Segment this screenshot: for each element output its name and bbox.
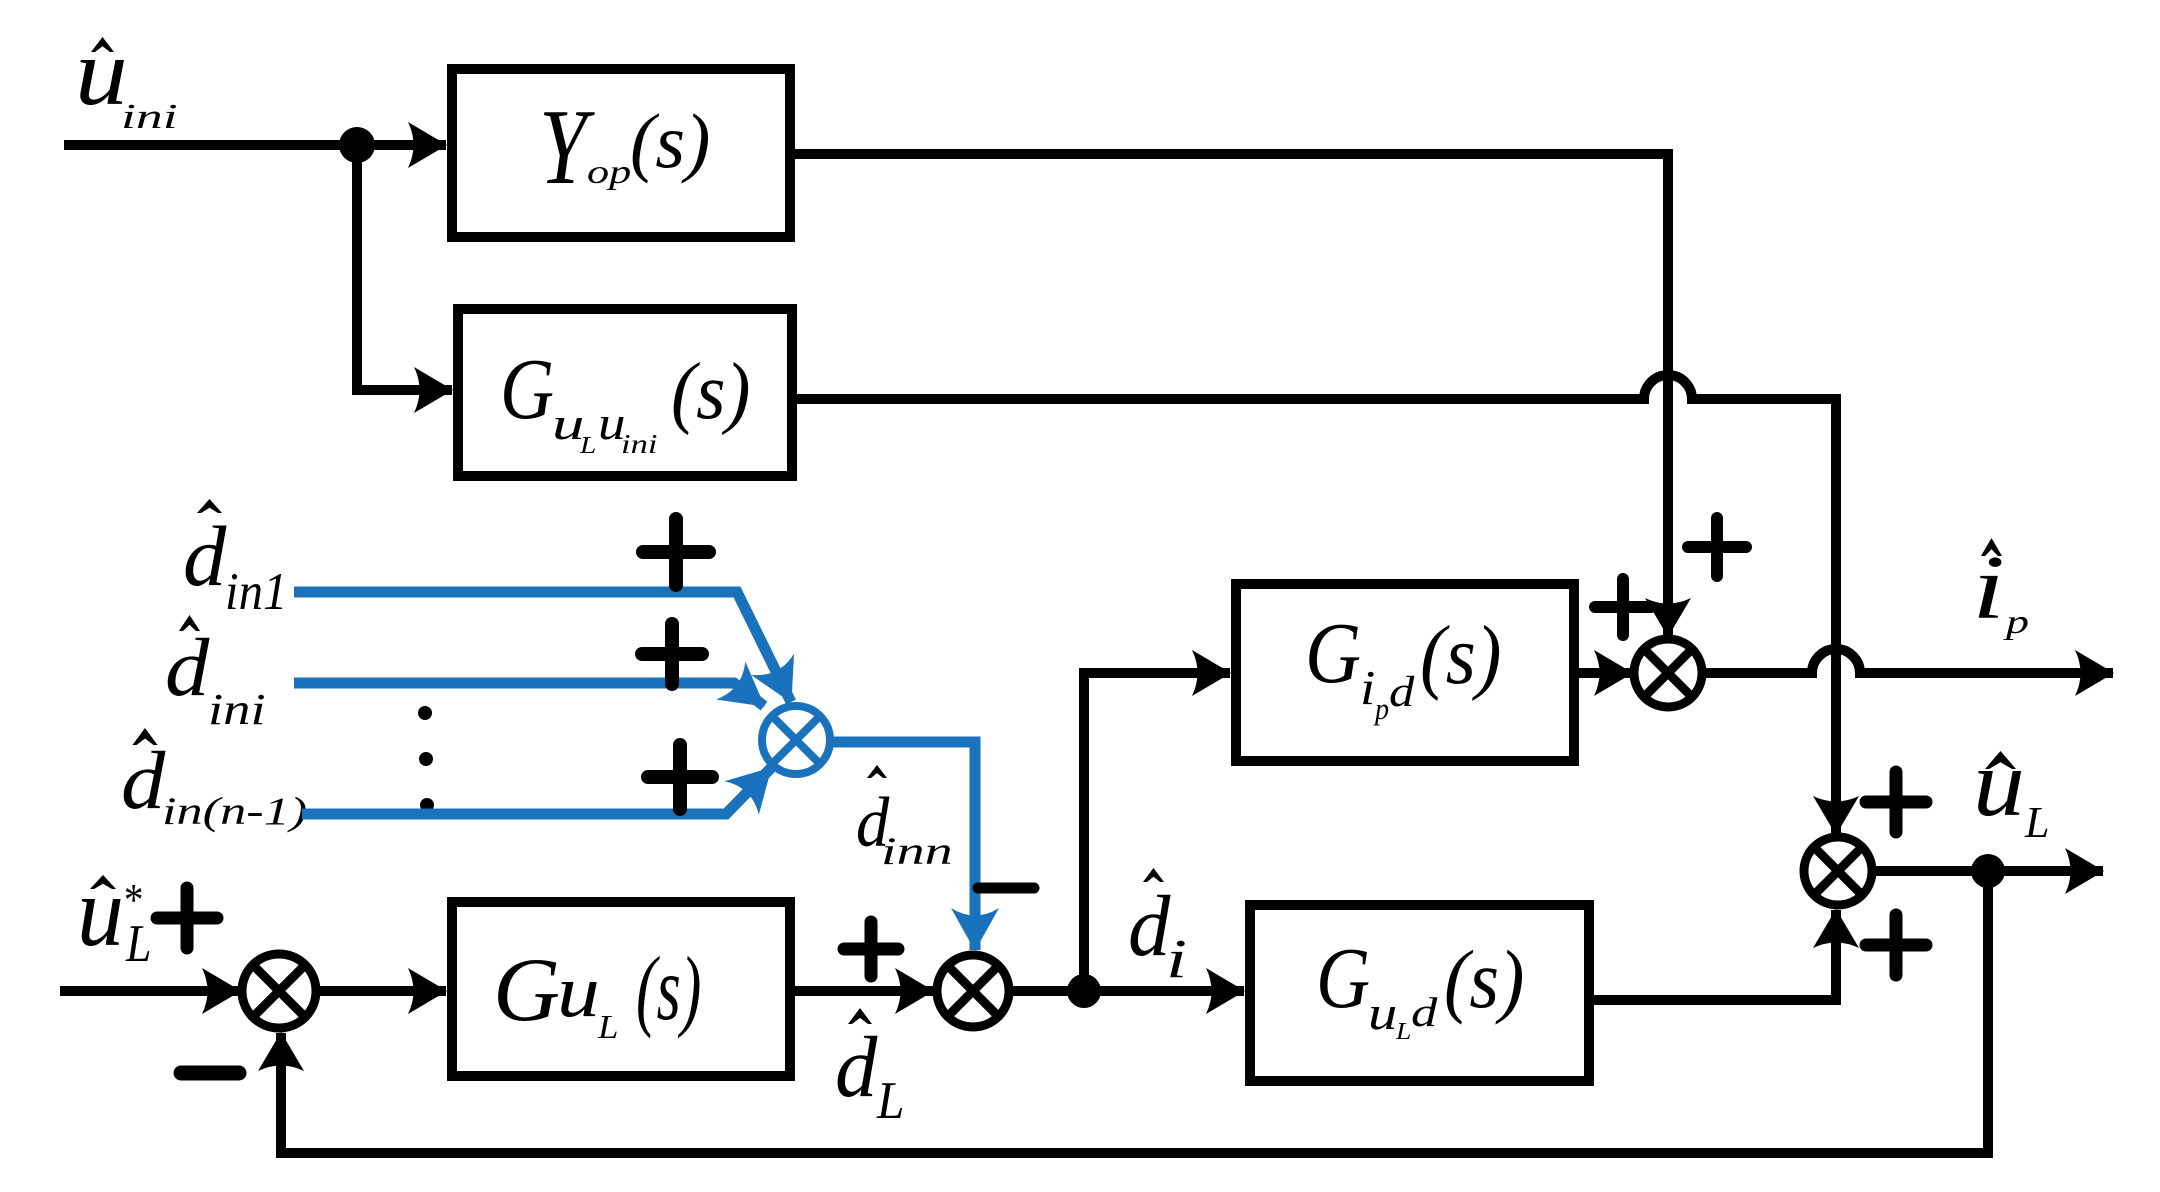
label d_L <box>835 1008 904 1130</box>
svg-text:(s): (s) <box>1444 933 1524 1025</box>
wire S2 output (d_i) to G_uLd <box>1009 986 1244 996</box>
wire feedback from node C to S5 <box>281 871 1988 1153</box>
svg-text:G: G <box>493 939 560 1040</box>
svg-text:u: u <box>1973 730 2025 836</box>
label d_ini <box>165 615 266 734</box>
block G_uLd(s) <box>1250 905 1589 1081</box>
label u_L (output signal) <box>1973 730 2050 847</box>
wire d_ini (blue) into S1 <box>294 683 764 706</box>
svg-text:(s): (s) <box>671 347 750 436</box>
label u*_L (reference input) <box>77 856 151 973</box>
svg-text:i: i <box>1166 928 1187 989</box>
wire G_ipd output into junction S3 <box>1579 668 1632 678</box>
summing junction S2 (middle) <box>937 955 1009 1027</box>
wire S5 to Gu_L <box>320 986 446 996</box>
node B (d_i branch point) <box>1067 974 1101 1008</box>
svg-text:L: L <box>579 432 597 459</box>
svg-text:G: G <box>500 341 554 437</box>
wire Gu_L output (d_L) into junction S2 <box>795 986 933 996</box>
minus sign for feedback into S5 <box>181 1066 239 1081</box>
minus sign for d_inn into S2 <box>978 883 1034 894</box>
svg-text:u: u <box>1368 987 1397 1040</box>
plus sign for bottom input into S4 <box>1866 915 1926 975</box>
svg-text:i: i <box>1360 662 1375 715</box>
svg-text:G: G <box>1316 930 1370 1026</box>
wire G_uLuini output with line hop, down to junction S4 <box>797 375 1836 834</box>
svg-text:p: p <box>1373 692 1389 726</box>
wire G_uLd output up into junction S4 <box>1594 910 1836 1000</box>
plus sign for d_in(n-1) <box>648 745 712 809</box>
summing junction S4 (lower right) <box>1804 837 1872 905</box>
svg-text:d: d <box>183 509 228 604</box>
svg-text:d: d <box>121 734 166 826</box>
label d_inn <box>856 765 953 873</box>
svg-text:L: L <box>876 1071 904 1130</box>
svg-text:(s): (s) <box>630 98 710 184</box>
wire d_in1 (blue) into S1 <box>294 592 791 702</box>
block Y_op(s) <box>452 69 790 237</box>
svg-text:ini: ini <box>121 97 178 136</box>
plus sign for d_in1 <box>643 519 709 585</box>
plus sign for u*_L into S5 <box>157 888 217 948</box>
label d_in(n-1) <box>121 728 307 833</box>
svg-text:d: d <box>1389 669 1415 716</box>
svg-text:L: L <box>2024 798 2050 847</box>
wire d_inn (blue) from S1 into junction S2 <box>830 742 975 950</box>
wire d_in(n-1) (blue) into S1 <box>302 768 771 814</box>
svg-text:G: G <box>1305 605 1361 701</box>
wire d_i branch up into G_ipd <box>1084 673 1230 991</box>
block G_ipd(s) <box>1236 584 1574 761</box>
plus sign for Y_op into S3 <box>1688 518 1746 576</box>
wire u*_L input into S5 <box>60 986 240 996</box>
svg-text:(s): (s) <box>1420 609 1502 702</box>
svg-text:ini: ini <box>621 429 657 459</box>
summing junction S1 (blue, n-input) <box>762 706 830 774</box>
svg-text:u: u <box>557 951 600 1033</box>
label u_ini (input signal) <box>75 19 178 136</box>
block G_uLuini(s) <box>458 309 792 476</box>
svg-text:in(n-1): in(n-1) <box>162 790 307 833</box>
svg-text:(s): (s) <box>636 937 701 1039</box>
plus sign for d_ini <box>642 624 702 684</box>
svg-text:d: d <box>1128 877 1171 974</box>
svg-text:op: op <box>587 154 631 191</box>
label d_i <box>1128 868 1187 989</box>
node A (u_ini branch point) <box>339 127 375 163</box>
plus sign for top input into S4 <box>1866 772 1926 832</box>
svg-text:ini: ini <box>208 685 266 734</box>
plus sign for G_ipd into S3 <box>1595 579 1651 635</box>
svg-text:L: L <box>597 1009 619 1046</box>
label i_p (output signal) <box>1972 537 2029 641</box>
wire u_ini input <box>64 140 446 150</box>
summing junction S3 (upper right) <box>1634 639 1702 707</box>
label d_in1 <box>183 499 287 621</box>
svg-text:d: d <box>835 1018 878 1115</box>
block Gu_L(s) <box>452 902 790 1076</box>
svg-text:d: d <box>1411 989 1438 1035</box>
svg-text:d: d <box>165 621 210 713</box>
wire branch from node A to G_uLuini <box>357 145 452 390</box>
svg-text:inn: inn <box>881 829 953 873</box>
plus sign for d_L into S2 <box>844 922 898 976</box>
summing junction S5 (left) <box>242 954 316 1028</box>
wire Y_op output down to junction S3 <box>795 154 1668 636</box>
vertical ellipsis dots <box>418 706 434 812</box>
wire u_L output <box>1876 866 2103 876</box>
svg-text:u: u <box>75 19 128 125</box>
svg-text:p: p <box>2003 604 2029 641</box>
svg-text:in1: in1 <box>225 562 287 621</box>
svg-text:L: L <box>1395 1018 1411 1045</box>
wire i_p output with line hop <box>1702 649 2113 673</box>
svg-text:L: L <box>125 914 151 973</box>
node C (u_L feedback branch point) <box>1971 854 2005 888</box>
svg-text:u: u <box>77 856 124 967</box>
